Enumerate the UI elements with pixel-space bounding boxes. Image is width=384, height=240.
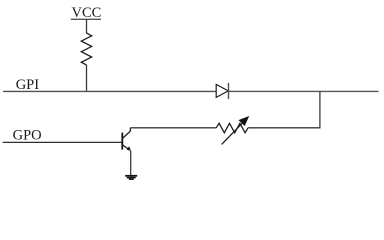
wire vertical from GPI line down to feedback branch	[319, 91, 321, 127]
wire resistor R1 to GPI line	[86, 65, 88, 91]
wire GPO line to transistor base	[3, 141, 122, 143]
node GPO label	[13, 128, 42, 144]
wire variable resistor VR1 to vertical riser	[248, 127, 321, 129]
wire VCC to resistor R1	[86, 19, 88, 33]
svg-text:GPO: GPO	[13, 128, 42, 144]
node GPI label	[16, 77, 40, 93]
svg-text:GPI: GPI	[16, 77, 40, 93]
wire collector branch to variable resistor VR1	[130, 127, 216, 129]
wire GPI line left segment to diode anode	[3, 90, 216, 92]
VCC underline bar	[71, 18, 101, 20]
node VCC label	[72, 5, 102, 21]
wire GPI line right segment from diode cathode to right edge	[229, 90, 379, 92]
ground	[125, 176, 137, 179]
transistor Q1	[122, 128, 131, 151]
wire emitter to ground	[130, 151, 132, 176]
resistor R1	[81, 33, 91, 65]
variable resistor VR1	[216, 116, 249, 144]
diode D1	[216, 83, 228, 99]
